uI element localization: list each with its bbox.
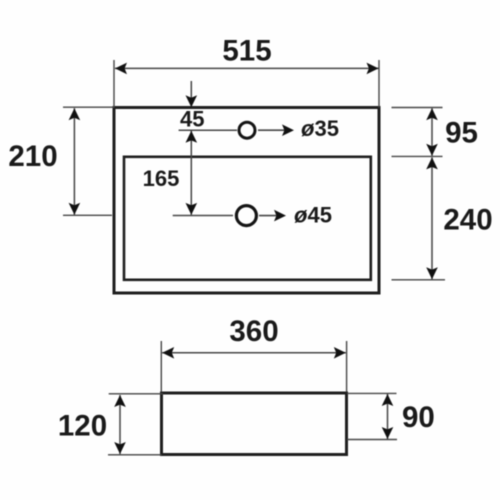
svg-text:ø45: ø45 bbox=[294, 203, 332, 228]
dimension 515: dimension line bbox=[115, 67, 379, 69]
svg-text:ø35: ø35 bbox=[301, 116, 339, 141]
svg-text:165: 165 bbox=[143, 166, 180, 191]
dimension 360: right extension line bbox=[346, 341, 348, 392]
svg-text:95: 95 bbox=[445, 117, 478, 150]
dimension 90: dimension line bbox=[387, 394, 389, 439]
faucet hole leader line bbox=[258, 129, 285, 131]
dimension 120: up arrow bbox=[114, 395, 126, 407]
svg-text:240: 240 bbox=[443, 203, 492, 236]
faucet hole circle bbox=[239, 122, 255, 138]
dimension 95: up arrow bbox=[426, 108, 438, 120]
dimension 515: left arrow bbox=[115, 63, 127, 75]
faucet hole leader arrow bbox=[282, 124, 294, 136]
drain hole circle bbox=[236, 206, 256, 226]
dimension 45/165: faucet hole centerline bbox=[179, 129, 237, 131]
dimension 360: left arrow bbox=[162, 347, 174, 359]
dimension 240: down arrow bbox=[426, 267, 438, 279]
dimension 95: top extension line bbox=[392, 107, 443, 109]
dimension 120: down arrow bbox=[114, 442, 126, 454]
svg-text:210: 210 bbox=[8, 140, 57, 173]
dimension 120: top extension line bbox=[109, 393, 163, 395]
dimension 120: bottom extension line bbox=[108, 454, 162, 456]
dimension 240: bottom extension line bbox=[392, 279, 446, 281]
dimension 360: right arrow bbox=[334, 347, 346, 359]
outer basin rect (top view) bbox=[114, 108, 379, 294]
dimension 90: top extension line bbox=[347, 392, 397, 394]
dimension 210: bottom extension line bbox=[63, 214, 112, 216]
dimension 240: dimension line bbox=[431, 157, 433, 279]
dimension 90: bottom extension line bbox=[347, 439, 397, 441]
inner bowl rect (top view) bbox=[124, 157, 371, 280]
dimension 90: up arrow bbox=[382, 394, 394, 406]
drain hole leader line bbox=[259, 215, 277, 217]
dimension 45: down arrow at basin top edge bbox=[186, 95, 198, 107]
dimension 95: down arrow bbox=[426, 144, 438, 156]
drain hole leader arrow bbox=[274, 210, 286, 222]
dimension 360: left extension line bbox=[160, 341, 162, 392]
svg-text:90: 90 bbox=[402, 401, 435, 434]
dimension 515: right extension line bbox=[378, 60, 380, 108]
dimension 90: down arrow bbox=[382, 427, 394, 439]
svg-text:120: 120 bbox=[58, 410, 107, 443]
dimension 165: up arrow bbox=[186, 131, 198, 143]
dimension 515: left extension line bbox=[113, 60, 115, 108]
dimension 210: top extension line bbox=[63, 106, 114, 108]
svg-text:45: 45 bbox=[180, 107, 204, 132]
svg-text:515: 515 bbox=[222, 35, 271, 68]
side view rect bbox=[162, 393, 347, 455]
dimension 515: right arrow bbox=[367, 63, 379, 75]
dimension 210: up arrow bbox=[69, 108, 81, 120]
dimension 95: dimension line bbox=[431, 108, 433, 156]
dimension 165: down arrow bbox=[186, 203, 198, 215]
svg-text:360: 360 bbox=[229, 315, 278, 348]
dimension 165: drain hole centerline bbox=[173, 215, 233, 217]
dimension 210: down arrow bbox=[69, 203, 81, 215]
dimension 45: upper leader line bbox=[190, 81, 192, 105]
dimension 240: up arrow bbox=[426, 157, 438, 169]
dimension 210: dimension line bbox=[73, 108, 75, 215]
dimension 120: dimension line bbox=[119, 395, 121, 454]
dimension 95/240: middle extension line bbox=[392, 155, 443, 157]
dimension 165: dimension line bbox=[190, 131, 192, 215]
dimension 360: dimension line bbox=[162, 352, 346, 354]
